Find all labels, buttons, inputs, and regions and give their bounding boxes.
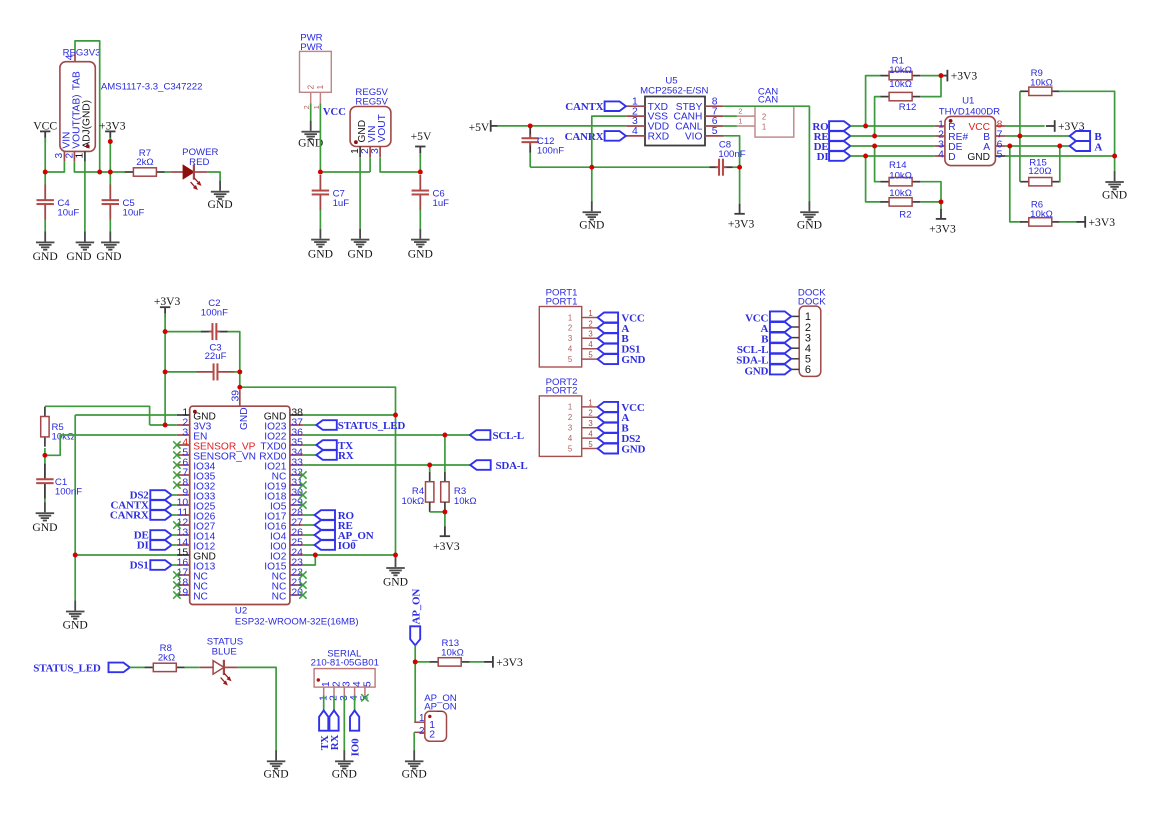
net label RO <box>812 121 850 133</box>
wire <box>319 104 321 173</box>
wire <box>921 201 941 203</box>
svg-text:NC: NC <box>193 591 208 602</box>
net label RX <box>303 450 354 462</box>
svg-text:4: 4 <box>568 434 573 443</box>
wire <box>310 104 312 122</box>
svg-text:4: 4 <box>632 126 638 137</box>
no-connect X <box>173 451 180 458</box>
resistor R9 <box>1020 68 1060 96</box>
value ESP32-WROOM-32E(16MB) <box>235 617 359 628</box>
junction <box>528 123 533 128</box>
wire <box>45 162 64 172</box>
capacitor C1 <box>36 464 82 499</box>
capacitor C4 <box>37 185 80 220</box>
wire <box>44 448 46 465</box>
capacitor C12 <box>522 128 565 157</box>
svg-text:5: 5 <box>568 444 573 453</box>
resistor R3 <box>441 472 477 512</box>
wire <box>74 162 125 172</box>
capacitor C8 <box>710 139 746 175</box>
wire <box>921 182 941 202</box>
svg-text:22uF: 22uF <box>205 351 227 362</box>
svg-text:GND: GND <box>797 219 822 232</box>
junction <box>393 553 398 558</box>
wire <box>172 534 177 536</box>
junction <box>1112 154 1117 159</box>
svg-text:2: 2 <box>588 409 592 418</box>
wire <box>184 666 200 668</box>
wire <box>228 332 240 388</box>
wire <box>130 666 146 668</box>
svg-text:120Ω: 120Ω <box>1028 166 1051 177</box>
wire <box>444 512 446 526</box>
no-connect X <box>173 441 180 448</box>
net label DS2 <box>598 433 641 445</box>
junction <box>73 553 78 558</box>
svg-text:10kΩ: 10kΩ <box>889 79 912 90</box>
svg-text:AP_ON: AP_ON <box>424 701 457 712</box>
connector PORT1 <box>539 307 597 368</box>
junction <box>318 170 323 175</box>
svg-text:10kΩ: 10kΩ <box>1030 209 1053 220</box>
net label CANTX <box>110 500 171 512</box>
wire GND pin1 <box>75 414 177 416</box>
net label DS2 <box>130 490 172 502</box>
junction <box>43 170 48 175</box>
resistor R1 <box>881 55 921 80</box>
svg-text:GND: GND <box>967 152 990 163</box>
svg-text:10kΩ: 10kΩ <box>402 496 425 507</box>
wire pin23 <box>303 555 315 565</box>
svg-text:+3V3: +3V3 <box>728 217 755 230</box>
wire <box>172 504 177 506</box>
svg-text:1: 1 <box>588 309 592 318</box>
wire <box>850 155 934 157</box>
capacitor C6 <box>412 175 450 210</box>
wire SDA <box>303 464 470 466</box>
svg-text:VIO: VIO <box>685 132 703 143</box>
svg-text:5: 5 <box>712 126 718 137</box>
svg-text:BLUE: BLUE <box>212 646 237 657</box>
junction <box>313 553 318 558</box>
wire <box>1114 156 1116 172</box>
no-connect X <box>361 694 368 701</box>
svg-text:IO0: IO0 <box>338 540 356 552</box>
svg-text:6: 6 <box>805 364 811 376</box>
junction <box>108 170 113 175</box>
svg-text:1uF: 1uF <box>333 198 350 209</box>
net label DE <box>814 141 851 153</box>
svg-text:REG5V: REG5V <box>355 96 388 107</box>
svg-text:GND: GND <box>621 354 645 366</box>
wire <box>208 172 220 181</box>
svg-text:GND: GND <box>308 247 333 260</box>
ground <box>332 750 357 780</box>
wire <box>1059 221 1077 223</box>
svg-text:2: 2 <box>419 726 424 737</box>
wire <box>419 157 421 173</box>
svg-text:100nF: 100nF <box>201 308 228 319</box>
power flag +3V3 <box>1076 216 1115 229</box>
wire VCC <box>1006 125 1045 127</box>
junction <box>97 170 102 175</box>
wire <box>415 661 430 663</box>
no-connect X <box>173 591 180 598</box>
no-connect X <box>173 471 180 478</box>
svg-text:GND: GND <box>579 219 604 232</box>
label U5 <box>665 75 677 86</box>
svg-text:2: 2 <box>307 84 316 89</box>
power flag +3V3 <box>939 70 978 83</box>
no-connect X <box>173 461 180 468</box>
svg-text:1: 1 <box>312 105 321 109</box>
junction <box>413 659 418 664</box>
svg-text:REG3V3: REG3V3 <box>63 47 101 58</box>
wire <box>1058 146 1061 182</box>
svg-text:MCP2562-E/SN: MCP2562-E/SN <box>640 85 708 96</box>
label PWR <box>300 32 322 43</box>
svg-text:+3V3: +3V3 <box>433 540 460 553</box>
power flag +3V3 <box>99 119 126 142</box>
svg-text:GND: GND <box>332 768 357 781</box>
label U2 <box>235 606 247 617</box>
resistor R13 <box>430 638 470 666</box>
ground <box>208 181 233 211</box>
svg-text:5: 5 <box>588 440 593 449</box>
net label GND <box>744 364 791 377</box>
net label RO <box>303 510 355 522</box>
regulator REG3V3 <box>54 51 95 161</box>
junction <box>872 134 877 139</box>
wire <box>850 125 934 127</box>
svg-text:4: 4 <box>938 150 944 161</box>
resistor R7 <box>125 148 165 176</box>
svg-text:DI: DI <box>817 151 829 163</box>
net label A <box>598 412 630 424</box>
power flag +3V3 <box>1046 120 1085 133</box>
wire <box>429 465 431 472</box>
connector SERIAL <box>314 669 375 701</box>
wire <box>739 167 741 204</box>
wire <box>172 564 177 566</box>
label REG5V <box>355 87 388 98</box>
svg-text:10kΩ: 10kΩ <box>52 432 75 443</box>
svg-text:IO0: IO0 <box>350 738 362 756</box>
ground <box>298 121 323 150</box>
resistor R2 <box>881 188 921 220</box>
wire CANH <box>724 115 737 117</box>
label PORT1 <box>546 288 578 299</box>
net label IO0 <box>303 540 356 552</box>
power flag +3V3 <box>154 295 181 318</box>
value 210-81-05GB01 <box>311 658 379 669</box>
svg-text:3: 3 <box>568 424 572 433</box>
net label STATUS_LED <box>33 663 130 675</box>
svg-text:+3V3: +3V3 <box>1089 216 1116 229</box>
svg-text:GND: GND <box>383 575 408 588</box>
wire <box>850 135 934 137</box>
svg-text:GND: GND <box>408 247 433 260</box>
junction <box>589 165 594 170</box>
label REG3V3 <box>63 47 101 58</box>
connector PWR <box>300 51 332 109</box>
connector CAN <box>737 106 794 137</box>
net label B <box>598 333 630 345</box>
wire <box>109 172 111 185</box>
svg-text:THVD1400DR: THVD1400DR <box>939 107 1000 118</box>
junction <box>442 509 447 514</box>
wire VIO <box>724 136 740 167</box>
net label DS1 <box>598 344 641 356</box>
regulator REG5V <box>350 107 391 158</box>
wire <box>74 555 76 601</box>
wire <box>165 371 197 373</box>
net label DS1 <box>130 560 172 572</box>
svg-text:2kΩ: 2kΩ <box>158 652 175 663</box>
svg-text:TAB: TAB <box>71 71 82 90</box>
wire <box>414 645 416 662</box>
svg-text:2: 2 <box>762 112 766 121</box>
ground <box>308 229 333 261</box>
net label TX <box>303 440 353 452</box>
wire <box>921 76 941 97</box>
net label CANTX <box>565 101 626 113</box>
svg-text:3: 3 <box>588 330 592 339</box>
svg-text:1: 1 <box>316 84 325 89</box>
junction <box>1017 134 1022 139</box>
wire ADJ to GND <box>84 162 86 232</box>
net label VCC <box>745 311 791 324</box>
svg-text:+3V3: +3V3 <box>929 223 956 236</box>
wire <box>44 142 46 173</box>
junction <box>418 170 423 175</box>
junction <box>108 139 113 144</box>
no-connect X <box>173 521 180 528</box>
net label A <box>1070 141 1103 153</box>
wire <box>238 667 276 751</box>
net label A <box>598 323 630 335</box>
svg-text:10kΩ: 10kΩ <box>1030 78 1053 89</box>
capacitor C7 <box>312 175 350 210</box>
svg-text:1: 1 <box>738 117 742 126</box>
svg-text:3: 3 <box>568 334 572 343</box>
capacitor C5 <box>102 185 145 220</box>
net label DI <box>137 540 172 552</box>
wire <box>529 153 531 168</box>
label U1 <box>962 96 974 107</box>
svg-text:3: 3 <box>370 148 381 154</box>
net label DI <box>817 151 851 163</box>
net label B <box>761 333 791 346</box>
wire <box>44 219 46 231</box>
label CAN <box>758 87 778 98</box>
net label STATUS_LED <box>303 420 405 432</box>
ground <box>408 229 433 261</box>
svg-text:100nF: 100nF <box>718 149 745 160</box>
capacitor C2 <box>201 298 228 340</box>
wire <box>380 157 420 172</box>
svg-text:10kΩ: 10kΩ <box>889 188 912 199</box>
svg-text:VOUT: VOUT <box>377 114 388 142</box>
svg-text:2: 2 <box>568 324 572 333</box>
svg-text:10uF: 10uF <box>57 207 79 218</box>
wire <box>866 156 882 202</box>
svg-text:3: 3 <box>588 419 592 428</box>
svg-text:CAN: CAN <box>758 95 778 106</box>
junction <box>1007 144 1012 149</box>
ground <box>66 232 94 264</box>
ground <box>33 232 58 264</box>
wire <box>1019 91 1021 181</box>
svg-text:ESP32-WROOM-32E(16MB): ESP32-WROOM-32E(16MB) <box>235 617 359 628</box>
capacitor C3 <box>197 343 235 381</box>
wire <box>44 172 46 185</box>
ground <box>797 201 822 231</box>
svg-text:R2: R2 <box>899 209 911 220</box>
svg-text:RED: RED <box>189 157 209 168</box>
svg-text:SDA-L: SDA-L <box>496 460 528 472</box>
svg-text:1: 1 <box>588 398 592 407</box>
wire GND pin15 <box>75 554 177 556</box>
net label AP_ON <box>410 589 422 646</box>
svg-text:U1: U1 <box>962 96 974 107</box>
wire <box>164 171 170 173</box>
value PWR <box>300 42 322 53</box>
no-connect X <box>299 581 306 588</box>
ground <box>348 229 373 261</box>
svg-text:5: 5 <box>997 150 1003 161</box>
svg-text:RXD: RXD <box>648 132 670 143</box>
value AP_ON <box>424 701 457 712</box>
net label VCC <box>598 312 645 324</box>
svg-text:CANRX: CANRX <box>110 510 149 522</box>
net label GND <box>598 354 646 366</box>
svg-text:GND: GND <box>621 443 645 455</box>
ground <box>1102 171 1127 201</box>
net label SCL-L <box>737 343 791 356</box>
wire <box>369 157 371 172</box>
wire <box>109 142 111 173</box>
wire <box>875 97 882 136</box>
power flag +3V3 <box>929 209 956 236</box>
svg-text:GND: GND <box>32 521 57 534</box>
wire <box>875 146 882 182</box>
net label RE <box>814 131 851 143</box>
svg-text:5: 5 <box>588 351 593 360</box>
junction <box>872 144 877 149</box>
power flag +3V3 <box>433 526 460 553</box>
junction <box>863 154 868 159</box>
label AP_ON <box>424 693 457 704</box>
svg-text:1: 1 <box>568 313 572 322</box>
junction <box>393 413 398 418</box>
svg-text:2: 2 <box>588 319 592 328</box>
wire <box>109 219 111 231</box>
junction <box>442 433 447 438</box>
svg-text:GND: GND <box>63 618 88 631</box>
wire <box>591 167 593 202</box>
IC U1 THVD1400DR <box>935 116 1006 165</box>
wire <box>498 125 627 127</box>
wire <box>921 75 941 77</box>
svg-text:A: A <box>1094 141 1102 153</box>
net label IO0 <box>350 695 362 756</box>
svg-text:+5V: +5V <box>411 130 432 143</box>
svg-text:DI: DI <box>137 540 149 552</box>
svg-text:PORT1: PORT1 <box>546 296 578 307</box>
IC U5 MCP2562 <box>626 96 724 145</box>
svg-text:210-81-05GB01: 210-81-05GB01 <box>311 658 379 669</box>
LED POWER <box>170 164 208 189</box>
no-connect X <box>299 571 306 578</box>
value MCP2562-E/SN <box>640 85 708 96</box>
label DOCK <box>798 288 826 299</box>
no-connect X <box>299 481 306 488</box>
resistor R5 <box>41 407 74 447</box>
svg-text:ADJ(GND): ADJ(GND) <box>82 100 93 149</box>
ground <box>264 750 289 780</box>
svg-text:10kΩ: 10kΩ <box>454 496 477 507</box>
svg-text:2: 2 <box>429 729 435 740</box>
power flag +3V3 <box>484 656 523 669</box>
svg-text:NC: NC <box>272 591 287 602</box>
svg-text:GND: GND <box>744 365 768 377</box>
wire <box>44 499 46 503</box>
junction <box>163 369 168 374</box>
power flag VCC <box>33 119 57 142</box>
svg-text:RX: RX <box>338 450 354 462</box>
svg-text:GND: GND <box>33 250 58 263</box>
wire B <box>1006 135 1070 137</box>
net label AP_ON <box>303 530 374 542</box>
svg-text:+3V3: +3V3 <box>951 70 978 83</box>
ground <box>383 557 408 588</box>
IC U2 ESP32-WROOM-32E <box>177 390 304 605</box>
value AMS1117-3.3_C347222 <box>101 82 203 93</box>
junction <box>42 453 47 458</box>
wire <box>430 511 445 513</box>
wire <box>172 494 177 496</box>
svg-text:10kΩ: 10kΩ <box>889 65 912 76</box>
value DOCK <box>798 296 826 307</box>
net label CANRX <box>565 131 626 143</box>
no-connect X <box>299 491 306 498</box>
svg-text:GND: GND <box>208 198 233 211</box>
svg-text:PORT2: PORT2 <box>546 386 578 397</box>
wire 3V3 pin2 <box>150 424 177 426</box>
svg-text:GND: GND <box>298 137 323 150</box>
label PORT2 <box>546 377 578 388</box>
wire <box>414 662 416 722</box>
wire <box>164 317 166 425</box>
net label TX <box>319 695 331 750</box>
wire <box>165 331 201 333</box>
svg-text:CANRX: CANRX <box>565 131 604 143</box>
junction <box>237 385 242 390</box>
power flag +3V3 <box>728 204 755 231</box>
value PORT2 <box>546 386 578 397</box>
power flag +5V <box>469 120 498 134</box>
wire <box>320 171 370 173</box>
value PORT1 <box>546 296 578 307</box>
ground <box>63 601 88 632</box>
svg-text:U2: U2 <box>235 606 247 617</box>
wire A <box>1006 145 1070 147</box>
label POWER RED <box>182 147 218 168</box>
no-connect X <box>299 471 306 478</box>
wire <box>1020 90 1022 92</box>
svg-text:AP_ON: AP_ON <box>410 589 422 625</box>
